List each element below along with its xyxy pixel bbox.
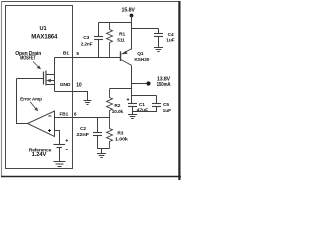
ground (reference) xyxy=(54,162,66,167)
capacitor C2 22nF xyxy=(76,118,102,149)
annotation Error Amp with pointer arrow xyxy=(20,97,42,112)
capacitor C3 2.2nF xyxy=(81,23,103,58)
emitter with arrow toward base (PNP) xyxy=(125,49,132,52)
svg-text:R2: R2 xyxy=(114,103,120,109)
wire output riser xyxy=(131,66,133,104)
svg-text:MAX1864: MAX1864 xyxy=(31,35,58,41)
wire output to R2 xyxy=(110,88,132,90)
wire reference to ground xyxy=(59,148,61,162)
wire output to C5 xyxy=(132,95,157,97)
wire B1 pin5 to Q1 base xyxy=(55,57,121,59)
wire FB1 pin6 to divider xyxy=(55,117,110,119)
IC U1 MAX1864 xyxy=(6,6,73,169)
ground (C2/R3) xyxy=(97,154,106,158)
capacitor C1 47uF (polarized) xyxy=(127,98,149,114)
ground (C4) xyxy=(154,48,163,52)
svg-text:5: 5 xyxy=(76,51,79,57)
svg-text:6: 6 xyxy=(74,112,77,118)
node 15.8V supply xyxy=(122,8,136,18)
ground (C1/C5) xyxy=(128,115,137,119)
svg-text:B1: B1 xyxy=(63,51,69,57)
transistor Q1 KSH30 (PNP) xyxy=(121,49,150,66)
svg-text:511: 511 xyxy=(117,38,125,44)
minus input sign xyxy=(48,115,51,117)
collector xyxy=(121,60,132,66)
wire C2/R3 bottom junction xyxy=(98,149,110,154)
plus input sign xyxy=(48,129,51,132)
resistor R2 10.0k xyxy=(107,89,124,118)
wire supply to C4 xyxy=(132,28,159,30)
op-amp error amplifier xyxy=(28,111,55,137)
svg-text:1.00k: 1.00k xyxy=(115,136,128,142)
svg-text:2.2nF: 2.2nF xyxy=(81,41,93,47)
capacitor C5 1uF xyxy=(133,96,172,114)
battery reference 1.24V xyxy=(29,139,68,158)
resistor R1 511 xyxy=(107,23,126,58)
svg-text:Q1: Q1 xyxy=(137,51,144,57)
svg-text:C4: C4 xyxy=(168,32,174,38)
svg-text:FB1: FB1 xyxy=(60,111,69,116)
svg-text:10: 10 xyxy=(76,83,82,89)
pin B1 (5) xyxy=(63,51,80,57)
svg-text:C5: C5 xyxy=(163,102,169,108)
svg-text:150mA: 150mA xyxy=(157,82,171,88)
svg-text:10.0k: 10.0k xyxy=(112,109,124,115)
svg-text:22nF: 22nF xyxy=(76,132,89,138)
node output 13.8V 150mA xyxy=(132,77,171,89)
wire op-amp output to MOSFET gate xyxy=(17,79,28,124)
svg-text:GND: GND xyxy=(60,82,71,88)
resistor R3 1.00k xyxy=(107,118,129,149)
svg-text:KSH30: KSH30 xyxy=(134,57,149,63)
svg-text:47uF: 47uF xyxy=(137,108,149,114)
svg-text:C2: C2 xyxy=(80,126,86,132)
svg-text:R3: R3 xyxy=(117,131,123,137)
wire MOSFET drain/source vertical xyxy=(54,58,56,92)
wire supply to R1/C3 xyxy=(99,22,132,24)
svg-text:MOSFET: MOSFET xyxy=(20,55,36,61)
pin GND (10) xyxy=(60,82,82,89)
capacitor C4 1uF xyxy=(154,29,175,48)
transistor internal open-drain MOSFET xyxy=(17,71,55,86)
ground (GND pin) xyxy=(84,101,92,105)
wire C5 bottom to C1 ground xyxy=(133,107,157,112)
svg-text:15.8V: 15.8V xyxy=(122,8,136,14)
wire op-amp plus input to reference xyxy=(55,131,60,145)
wire GND pin10 xyxy=(55,92,88,101)
svg-text:C3: C3 xyxy=(83,35,89,41)
annotation Open Drain MOSFET with pointer arrow xyxy=(15,51,41,70)
svg-text:R1: R1 xyxy=(119,32,125,38)
svg-text:Error Amp: Error Amp xyxy=(20,97,42,103)
wire supply riser xyxy=(131,16,133,50)
pin FB1 (6) xyxy=(60,111,77,117)
svg-text:C1: C1 xyxy=(139,102,145,108)
svg-text:1.24V: 1.24V xyxy=(32,152,47,158)
svg-text:1uF: 1uF xyxy=(166,38,174,44)
svg-text:U1: U1 xyxy=(40,26,47,32)
svg-text:1uF: 1uF xyxy=(163,108,171,114)
